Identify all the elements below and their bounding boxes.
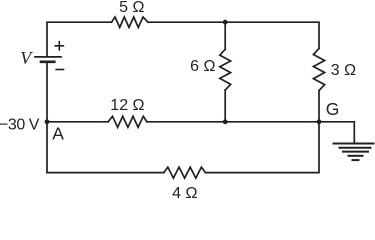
node dot: bottom of R2 on middle wire: [223, 119, 228, 124]
wire: R3 bottom to node G: [318, 91, 320, 122]
ground bar 3: [343, 151, 368, 153]
node dot: node G: [317, 119, 322, 124]
wire: bottom-left corner to R5: [47, 172, 164, 174]
wire: node T to top-right corner down to R3 top: [225, 22, 319, 48]
wire: node T down to R2 top: [224, 22, 226, 49]
wire: battery positive terminal up and right to R1: [47, 22, 112, 56]
resistor R5 4 ohm: [164, 167, 206, 178]
wire: R1 to node T: [148, 21, 225, 23]
ground bar 1: [334, 143, 374, 145]
wire: R4 to node G: [147, 121, 319, 123]
battery plus sign: [55, 42, 63, 50]
battery V1 positive plate: [35, 56, 61, 58]
wire: node A to R4: [47, 121, 108, 123]
svg-text:A: A: [52, 124, 64, 144]
svg-text:4 Ω: 4 Ω: [172, 185, 197, 199]
resistor R3 3 ohm: [313, 48, 324, 90]
svg-text:6 Ω: 6 Ω: [190, 58, 215, 75]
node dot: top of R2: [223, 20, 228, 25]
svg-text:5 Ω: 5 Ω: [119, 0, 144, 16]
svg-text:3 Ω: 3 Ω: [331, 62, 356, 79]
battery V1 negative plate: [41, 60, 54, 63]
ground bar 2: [340, 147, 371, 149]
svg-text:V: V: [20, 48, 33, 68]
wire: R5 to bottom-right corner up to node G: [205, 122, 319, 173]
svg-text:−30 V: −30 V: [0, 117, 40, 134]
wire: R2 bottom to middle wire junction: [224, 90, 226, 122]
wire: node G to ground: [319, 122, 354, 144]
ground bar 4: [349, 155, 363, 157]
wire: battery negative terminal down to node A and bottom-left corner: [46, 63, 48, 173]
battery minus sign: [56, 69, 63, 71]
resistor R1 5 ohm: [112, 17, 149, 27]
resistor R2 6 ohm: [220, 49, 231, 90]
resistor R4 12 ohm: [108, 116, 147, 127]
svg-text:G: G: [326, 99, 340, 119]
node dot: node A: [45, 119, 50, 124]
ground bar 5: [353, 159, 359, 161]
svg-text:12 Ω: 12 Ω: [110, 97, 144, 114]
